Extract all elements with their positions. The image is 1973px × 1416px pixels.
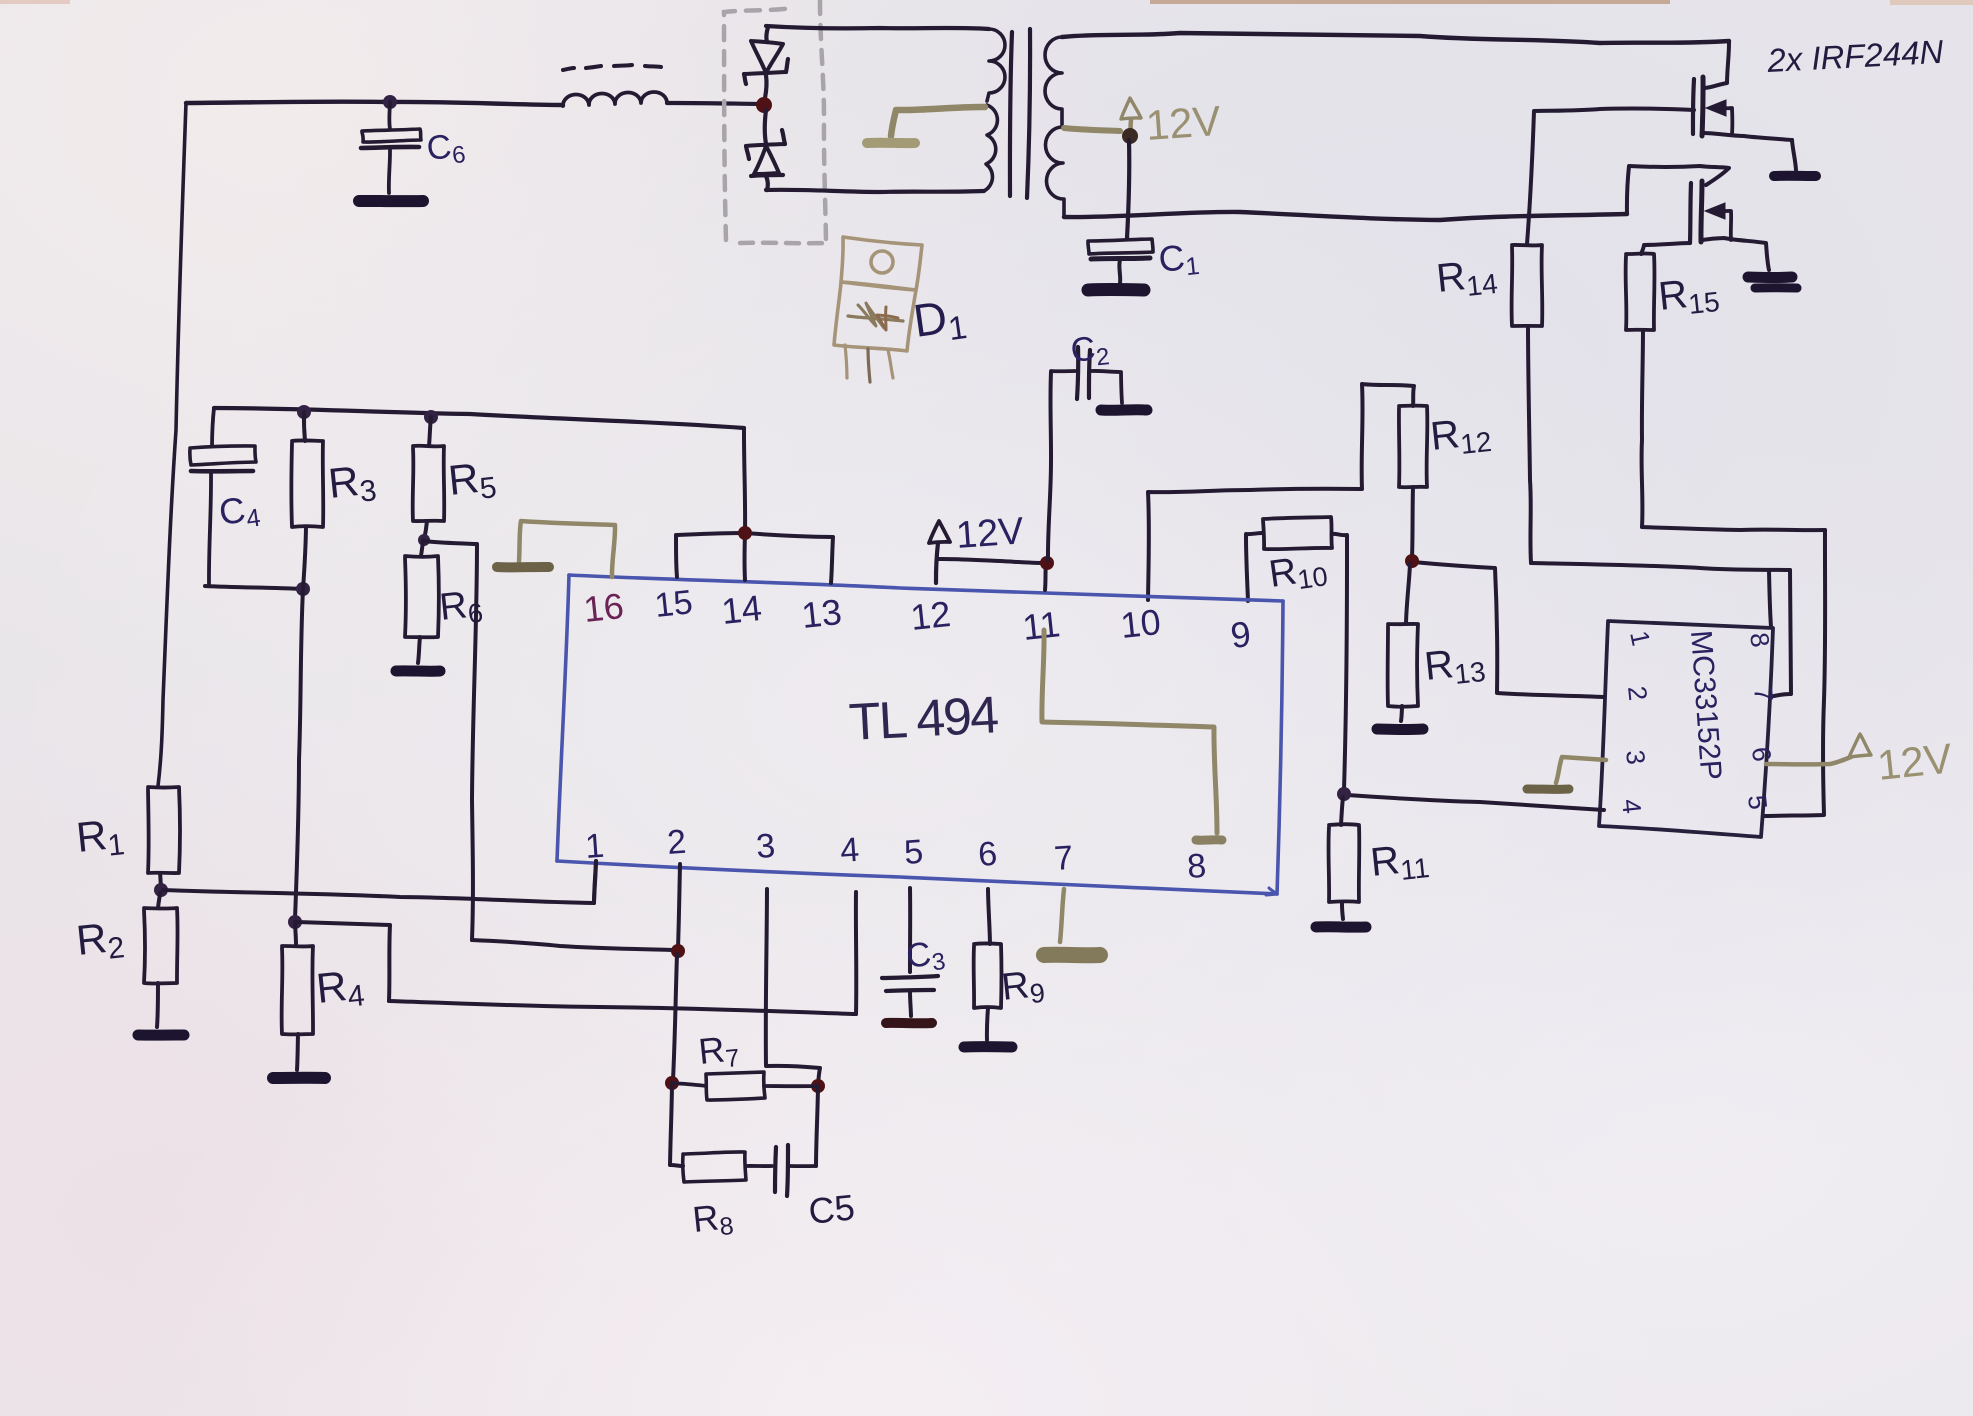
ground C2 [1101,404,1147,416]
wire R1 bottom [160,873,161,886]
svg-text:12: 12 [909,593,953,638]
label R10 [1266,546,1329,599]
wire R10 left to pin 9 [1246,533,1263,601]
ground C6 [359,195,423,207]
svg-text:7: 7 [1053,839,1075,878]
wire R8 to C5 [746,1164,772,1168]
node R5 rail [424,410,438,424]
capacitor C6 [361,102,421,193]
dashed box (rectifier module) [724,0,830,243]
label R12 [1428,409,1493,463]
label R13 [1422,639,1487,693]
pin 1 (MC) [1624,628,1656,648]
wire pin 4 down [854,892,858,1014]
resistor R13 [1388,624,1418,707]
node R5/R6 [418,534,430,546]
pin 7 (MC) [1748,685,1779,703]
wire R6 bottom [418,637,420,663]
svg-text:8: 8 [1186,847,1208,886]
ground R4 [273,1072,325,1084]
resistor R3 [291,440,323,527]
wire R9 bottom [987,1008,988,1040]
wire node to R2 [158,893,160,908]
ground R6 [396,665,440,676]
svg-text:16: 16 [582,585,626,630]
wire Q1 source to ground [1792,140,1796,170]
svg-text:5: 5 [903,833,925,872]
svg-text:11: 11 [1021,603,1062,648]
transformer primary winding [984,29,1005,191]
pin 4 (TL494) [839,831,861,870]
resistor R14 [1512,245,1543,326]
pin 6 (TL494) [977,835,999,874]
pin 5 (TL494) [903,833,925,872]
wire MC pin 2 to R12/R13 node [1413,562,1604,697]
wire R5 top [429,417,431,446]
capacitor C3 [882,976,938,1016]
label C2 [1069,328,1111,374]
wire R14 to MC33152 pins 7/8 [1528,326,1791,696]
svg-text:15: 15 [653,583,695,625]
capacitor C4 [190,408,256,585]
pin 5 (MC) [1742,793,1773,811]
node R7 right [811,1079,825,1093]
resistor R10 [1263,517,1332,549]
label R8 [691,1195,735,1244]
wire input top rail [186,102,563,105]
pin 13 (TL494) [800,591,844,636]
node R12/R13 [1405,554,1419,568]
wire pins 13/14/15 tie [676,428,833,583]
svg-text:6: 6 [977,835,999,874]
transformer primary loop [766,26,989,192]
ground R9 [964,1041,1012,1052]
label R2 [74,912,126,969]
wire pin 2 to R7 [673,954,677,1080]
label R4 [314,960,366,1017]
label R1 [74,809,126,866]
wire center tap to C1 [1127,140,1129,238]
wire 12V rail to pin 11 [938,559,1047,590]
label C1 [1157,235,1201,284]
wire R2 bottom [157,983,158,1027]
resistor R4 [282,946,313,1034]
wire secondary bottom to Q2 drain [1627,166,1729,214]
wire R5/R6 node to pin 2 [424,541,676,950]
svg-text:10: 10 [1119,601,1163,646]
svg-text:12V: 12V [955,510,1026,557]
label 12V (center tap) [1144,97,1222,149]
svg-text:12V: 12V [1144,97,1222,149]
capacitor C5 [775,1145,816,1196]
node R11 top [1337,787,1351,801]
pin 12 (TL494) [909,593,953,638]
ground R11 [1316,921,1366,932]
label TL 494 [848,686,1000,752]
node C6 tap [383,95,397,109]
wire MC pin 4 to R11 node [1347,795,1604,810]
node C2 tap [1040,556,1054,570]
wire C2 branch [1048,372,1051,560]
pin 2 (MC) [1622,684,1653,702]
pin 4 (MC) [1616,797,1647,815]
ground Q1 [1774,171,1816,181]
wire input left vertical [158,103,186,786]
zener diode bottom [746,110,785,190]
label C4 [216,487,262,537]
wire R15 to MC33152 pin 5 [1642,330,1826,816]
node 12V center tap [1122,128,1138,144]
wire R11 bottom [1342,902,1343,919]
wire Q1 gate [1527,108,1694,244]
power 12V arrow (MC pin 6, grey) [1766,734,1871,764]
ground R2 [138,1030,184,1041]
pin 3 (TL494) [755,827,777,866]
label R15 [1656,269,1721,323]
resistor R8 [683,1152,746,1182]
inductor L1 [563,65,667,106]
svg-text:2: 2 [666,823,688,862]
wire pin 5 down [908,888,912,972]
wire node to R13 [1406,564,1410,624]
grey link pin 11 internal [1042,630,1222,840]
wire pin 3 down [766,889,820,1084]
ground pin 7 (grey) [1044,889,1100,955]
node R3 bottom [296,582,310,596]
power 12V arrow (pin 12) [929,521,950,583]
resistor R7 [706,1072,765,1100]
wire R13 bottom [1401,706,1402,721]
pin 11 (TL494) [1021,603,1062,648]
resistor R2 [144,908,178,984]
label C5 [807,1186,857,1232]
ground R13 [1377,724,1423,736]
wire R12 bottom [1412,487,1413,558]
transistor Q1 IRF244N [1693,77,1792,140]
pin 16 (TL494) [582,585,626,630]
svg-text:13: 13 [800,591,844,636]
pin 10 (TL494) [1119,601,1163,646]
resistor R12 [1399,406,1427,488]
node pin 2 [671,944,685,958]
svg-text:3: 3 [755,827,777,866]
wire R3 node down to R4 [295,589,303,919]
node bridge input [756,97,772,113]
resistor R15 [1626,253,1655,330]
transformer primary center tap (grey) [867,107,985,143]
wire Q2 gate to R15 [1641,243,1690,254]
IC U2 MC33152P [1599,621,1773,837]
wire node to R11 [1341,797,1343,825]
wire R6 top [421,540,423,556]
wire pin 6 down [988,889,990,944]
wire pin10 to R12 top [1148,384,1414,600]
wire R5 bottom [424,521,427,540]
wire R10 right leg down [1332,534,1347,790]
label 12V (pin 12) [955,510,1026,557]
wire R1/R2 node to pin 1 [163,861,596,903]
node R7 left [665,1076,679,1090]
label R5 [446,452,498,509]
label C3 [904,933,947,980]
resistor R1 [148,787,180,873]
resistor R6 [405,556,439,637]
capacitor C2 [1051,347,1122,403]
node R1/R2 [154,883,168,897]
ground pin 16 (grey) [497,521,615,577]
ground C3 [886,1018,932,1028]
capacitor C1 [1088,239,1153,283]
wire R3/R5 top rail [214,408,744,428]
label D1 [910,288,969,352]
label R11 [1368,835,1431,889]
pin 14 (TL494) [720,587,764,632]
wire R7 left lead [672,1083,706,1086]
wire secondary top to Q1 drain [1705,41,1729,88]
ground MC pin 3 (grey) [1527,757,1606,789]
pin 2 (TL494) [666,823,688,862]
wire R8 branch left [670,1086,683,1166]
pin 6 (MC) [1746,745,1777,763]
label R9 [1000,963,1047,1012]
wire secondary top [1062,33,1729,43]
pin 1 (TL494) [584,827,606,866]
pin 8 (TL494) [1186,847,1208,886]
wire C5 up to R7 right [816,1086,818,1166]
svg-text:C5: C5 [807,1186,857,1232]
label R7 [697,1027,741,1076]
pin 3 (MC) [1620,748,1651,766]
node pin14 tie [738,526,752,540]
ground C1 [1088,283,1144,297]
power 12V arrow (center tap) [1121,98,1141,134]
resistor R5 [413,446,445,521]
label MC33152P [1684,629,1727,781]
label 12V (MC pin 6) [1875,734,1954,789]
label R6 [438,583,485,632]
node R4 top [288,915,302,929]
svg-text:TL 494: TL 494 [848,686,1000,752]
label 2x IRF244N [1765,33,1944,79]
wire secondary bottom [1064,212,1627,220]
transformer secondary winding [1045,37,1064,217]
zener diode top [744,27,788,98]
wire R7 right lead [764,1084,818,1088]
pin 15 (TL494) [653,583,695,625]
svg-text:14: 14 [720,587,764,632]
svg-text:9: 9 [1229,613,1253,656]
wire R3 top [304,412,305,441]
node C4/R3 rail [297,405,311,419]
label R3 [326,455,378,512]
wire inductor to bridge [667,103,764,104]
pin 9 (TL494) [1229,613,1253,656]
wire pin 1 down [594,861,596,903]
wire C4/R3 bottom link [205,586,303,589]
transistor Q2 IRF244N [1690,181,1769,270]
pin 8 (MC) [1744,631,1776,650]
svg-text:12V: 12V [1875,734,1954,789]
pin 7 (TL494) [1053,839,1075,878]
label C6 [425,126,467,172]
diode package D1 [834,237,922,382]
wire R4 node jog to pin 4 rail [297,922,856,1014]
resistor R11 [1328,824,1359,902]
wire R4 bottom [297,1034,298,1070]
wire pin 2 down [678,864,680,948]
resistor R9 [974,943,1002,1008]
label R14 [1434,251,1499,305]
svg-text:4: 4 [839,831,861,870]
transformer core [1010,29,1030,198]
IC U1 TL494 [557,575,1283,895]
ground Q2 [1748,277,1797,288]
wire R3 bottom [303,527,306,589]
transformer secondary center tap (grey) [1064,128,1120,131]
wire R4 top [295,922,296,946]
